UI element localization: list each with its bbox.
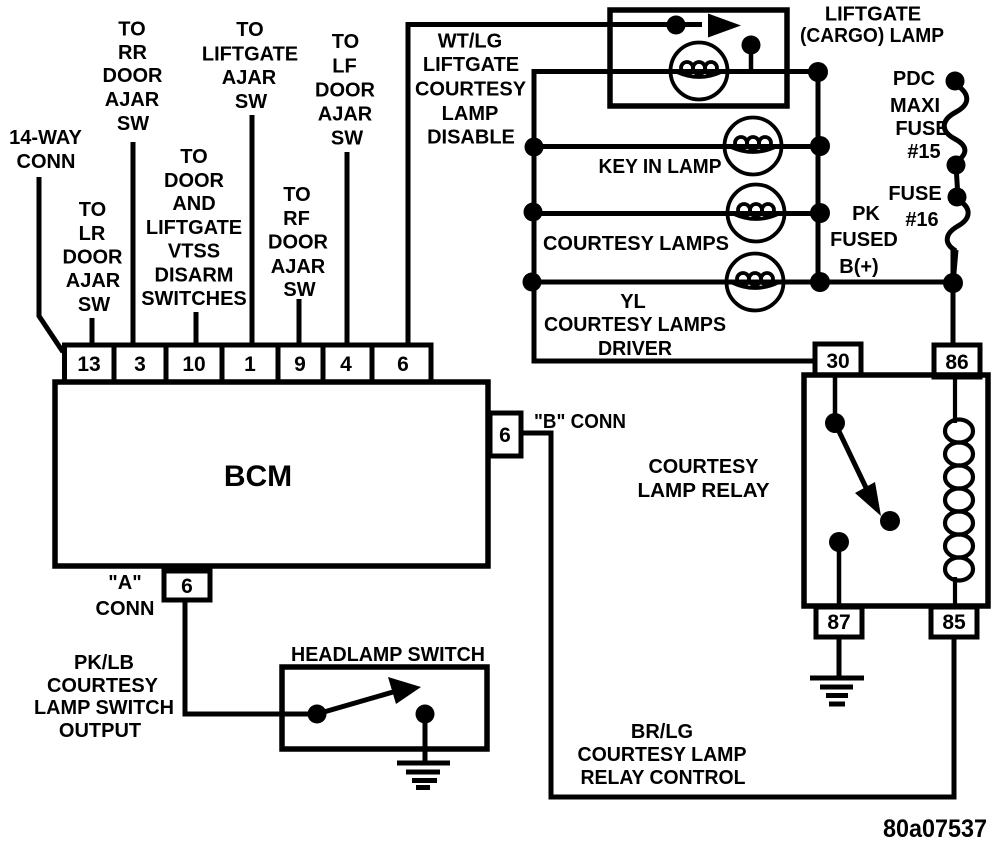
label FUSE #16 [888,183,941,231]
svg-text:PK: PK [852,203,880,225]
svg-text:"B" CONN: "B" CONN [534,411,626,433]
label PK/LB COURTESY LAMP SWITCH OUTPUT [34,652,174,742]
node left bus / lamp feed [525,138,544,157]
svg-text:OUTPUT: OUTPUT [59,720,141,742]
node right bus key-in [810,136,830,156]
svg-text:DOOR: DOOR [268,232,329,254]
node right bus lamp feed [808,62,828,82]
relay switch contact node [880,511,900,531]
svg-text:LIFTGATE: LIFTGATE [202,44,298,66]
wire YL driver to relay pin 30 [534,359,816,364]
connector pin box 10 [166,345,222,382]
connector pin box 85 [931,607,977,637]
BCM module box [55,382,488,566]
svg-text:9: 9 [294,353,306,376]
fuse F16 [947,200,968,284]
svg-text:#16: #16 [905,209,938,231]
svg-text:TO: TO [236,19,263,41]
node right bus B+ [810,272,830,292]
svg-text:SWITCHES: SWITCHES [141,288,247,310]
connector pin box 30 [815,344,861,375]
svg-text:4: 4 [340,353,352,376]
svg-text:AJAR: AJAR [66,270,121,292]
lamp liftgate cargo [671,43,728,100]
relay common node [825,413,845,433]
svg-text:SW: SW [78,294,110,316]
svg-text:RR: RR [118,42,147,64]
svg-text:LAMP SWITCH: LAMP SWITCH [34,697,174,719]
svg-text:DOOR: DOOR [103,65,164,87]
svg-text:COURTESY LAMPS: COURTESY LAMPS [543,233,729,255]
connector pin box 9 [278,345,323,382]
svg-text:COURTESY: COURTESY [47,675,159,697]
headlamp switch right contact node [416,705,435,724]
svg-text:LAMP RELAY: LAMP RELAY [638,480,771,502]
relay NO contact node [829,532,849,552]
svg-text:KEY IN LAMP: KEY IN LAMP [599,156,722,178]
svg-text:SW: SW [331,128,363,150]
wire courtesy lamps branch [534,211,820,216]
svg-text:DOOR: DOOR [164,170,225,192]
label TO LR DOOR AJAR SW [63,199,124,316]
node between fuses [947,156,966,175]
wire to RF door ajar sw (pin 9) [297,299,302,347]
lamp courtesy [728,185,785,242]
svg-text:6: 6 [499,424,511,447]
svg-text:86: 86 [945,351,968,374]
wire headlamp switch to ground [423,720,428,762]
svg-text:6: 6 [181,575,193,598]
connector pin box 3 [114,345,166,382]
svg-text:FUSE: FUSE [895,118,948,140]
svg-text:6: 6 [397,353,409,376]
wire WT/LG liftgate courtesy lamp disable (pin 6) [408,25,702,348]
label LIFTGATE (CARGO) LAMP [800,4,944,48]
label PK FUSED B(+) [830,203,898,278]
label TO DOOR AND LIFTGATE VTSS DISARM SWITCHES [141,146,247,310]
label TO RF DOOR AJAR SW [268,184,329,301]
wire YL courtesy lamps driver branch [534,280,820,285]
svg-text:RF: RF [283,208,310,230]
connector pin box 6 [372,345,431,382]
svg-text:COURTESY: COURTESY [649,456,760,478]
wire BR/LG courtesy lamp relay control [521,433,954,797]
headlamp switch blade [317,692,393,714]
svg-text:RELAY CONTROL: RELAY CONTROL [581,767,746,789]
node right bus courtesy [810,203,830,223]
svg-text:DOOR: DOOR [315,80,376,102]
svg-text:TO: TO [180,146,207,168]
label PDC MAXI FUSE #15 [890,68,949,163]
headlamp switch left contact node [308,705,327,724]
svg-text:SW: SW [283,279,315,301]
liftgate lamp switch contact dot [667,16,686,35]
ground under headlamp switch [397,763,450,788]
svg-text:DOOR: DOOR [63,247,124,269]
node left bus courtesy [524,203,543,222]
svg-text:"A": "A" [108,572,141,594]
svg-text:AJAR: AJAR [271,256,326,278]
connector pin box 1 [222,345,278,382]
svg-text:BCM: BCM [224,460,292,493]
connector pin box 87 [816,607,862,637]
wire to RR door ajar sw (pin 3) [131,142,136,347]
wire to LF door ajar sw (pin 4) [345,152,350,347]
svg-text:LAMP: LAMP [442,103,499,125]
svg-text:FUSE: FUSE [888,183,941,205]
connector pin box 4 [323,345,372,382]
relay switch blade [835,423,870,496]
svg-text:LIFTGATE: LIFTGATE [423,54,519,76]
svg-text:13: 13 [77,353,100,376]
svg-text:CONN: CONN [17,151,76,173]
svg-text:85: 85 [942,611,966,634]
svg-text:#15: #15 [907,141,940,163]
svg-text:DRIVER: DRIVER [598,338,673,360]
liftgate lamp switch right contact [742,36,761,55]
label COURTESY LAMP RELAY [638,456,771,502]
connector pin box 86 [934,345,980,377]
wire key-in lamp branch [534,144,820,149]
wire to LR door ajar sw (pin 13) [90,318,95,347]
label TO LIFTGATE AJAR SW [202,19,298,113]
svg-text:YL: YL [620,291,646,313]
svg-text:LR: LR [79,223,106,245]
relay common wire from pin 30 [833,375,838,416]
svg-text:COURTESY LAMPS: COURTESY LAMPS [544,314,726,336]
svg-text:(CARGO) LAMP: (CARGO) LAMP [800,25,944,47]
wire fuse output to relay pin 86 [951,249,956,346]
liftgate cargo lamp box [610,10,787,106]
svg-text:TO: TO [332,31,359,53]
svg-text:SW: SW [117,113,149,135]
lamp key-in [725,118,782,175]
svg-text:TO: TO [283,184,310,206]
svg-text:LF: LF [332,56,356,78]
svg-text:HEADLAMP SWITCH: HEADLAMP SWITCH [291,644,485,666]
svg-text:TO: TO [118,19,145,41]
svg-text:B(+): B(+) [839,256,878,278]
svg-text:SW: SW [235,91,267,113]
wire PK fused B(+) [818,280,955,285]
label WT/LG LIFTGATE COURTESY LAMP DISABLE [415,31,527,149]
svg-text:80a07537: 80a07537 [883,815,987,843]
lamp courtesy driver [727,254,784,311]
wire right bus [816,72,821,285]
svg-text:3: 3 [134,353,146,376]
svg-text:AJAR: AJAR [318,104,373,126]
svg-text:MAXI: MAXI [890,95,940,117]
connector pin box 6 "A" conn [164,571,210,600]
label BR/LG COURTESY LAMP RELAY CONTROL [578,721,747,789]
liftgate lamp switch arrow [708,14,741,38]
svg-text:10: 10 [182,353,205,376]
label TO RR DOOR AJAR SW [103,19,164,136]
svg-text:1: 1 [244,353,256,376]
svg-text:DISABLE: DISABLE [427,127,515,149]
label 14-WAY CONN [9,127,82,173]
wire 14-way connector lead [39,177,63,352]
wire PK/LB courtesy lamp switch output [185,599,315,714]
relay blade arrowhead [855,482,881,516]
svg-text:LIFTGATE: LIFTGATE [825,4,921,26]
wire lamp feed liftgate cargo lamp [534,69,818,74]
svg-text:VTSS: VTSS [168,241,220,263]
relay wire contact to pin 87 [837,542,842,607]
svg-text:30: 30 [826,350,849,373]
relay K1 courtesy lamp relay box [804,375,988,606]
ground under relay pin 87 [810,678,864,704]
wire to VTSS disarm switches (pin 10) [194,312,199,347]
svg-text:CONN: CONN [96,598,155,620]
headlamp switch box [282,667,487,749]
svg-text:COURTESY LAMP: COURTESY LAMP [578,744,747,766]
svg-text:AJAR: AJAR [105,89,160,111]
svg-text:PDC: PDC [893,68,935,90]
svg-text:87: 87 [827,611,850,634]
svg-text:LIFTGATE: LIFTGATE [146,217,242,239]
svg-text:PK/LB: PK/LB [74,652,134,674]
svg-text:14-WAY: 14-WAY [9,127,82,149]
node fused B+ junction [943,273,963,293]
svg-text:TO: TO [79,199,106,221]
wire relay pin 87 to ground [837,637,842,677]
svg-text:DISARM: DISARM [155,265,234,287]
headlamp switch blade arrowhead [388,677,421,704]
node left bus driver [523,273,542,292]
label TO LF DOOR AJAR SW [315,31,376,150]
svg-text:FUSED: FUSED [830,229,898,251]
svg-text:BR/LG: BR/LG [631,721,693,743]
svg-text:AJAR: AJAR [222,67,277,89]
connector pin box 13 [65,345,432,382]
svg-text:COURTESY: COURTESY [415,79,527,101]
label "A" CONN [96,572,155,620]
fuse F15 PDC maxi fuse [944,84,967,162]
relay coil [945,377,973,607]
node fuse 16 top [948,188,967,207]
svg-text:AND: AND [172,193,215,215]
wire left bus [534,72,536,362]
wire to liftgate ajar sw (pin 1) [250,115,255,347]
connector pin box 6 "B" conn [490,413,521,456]
label YL COURTESY LAMPS DRIVER [544,291,726,360]
node fuse top B+ [946,72,965,91]
svg-text:WT/LG: WT/LG [438,31,502,53]
